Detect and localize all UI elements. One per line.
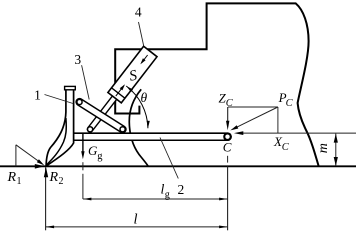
svg-text:2: 2	[59, 176, 64, 187]
lg dimension line	[83, 198, 228, 200]
pivot pin rod end	[88, 127, 93, 132]
svg-text:1: 1	[34, 87, 41, 102]
pivot pin link end	[120, 127, 125, 132]
blade moldboard 1	[46, 90, 74, 166]
svg-text:1: 1	[17, 176, 22, 187]
svg-text:C: C	[286, 98, 294, 109]
svg-text:g: g	[97, 151, 103, 162]
stroke S lower arrow	[116, 86, 124, 97]
svg-text:C: C	[226, 98, 234, 109]
svg-text:g: g	[165, 190, 170, 201]
svg-text:R: R	[7, 170, 17, 185]
dashed extension below C	[227, 156, 229, 163]
R2 arrow	[45, 167, 47, 230]
front idler wheel arc	[129, 89, 148, 166]
leader 3	[82, 65, 90, 99]
stroke S upper arrow	[142, 55, 148, 63]
Gg weight arrow	[82, 134, 84, 155]
leader 4	[139, 22, 144, 46]
force rectangle at C	[228, 106, 278, 108]
pivot pin blade top	[77, 99, 82, 104]
hydraulic cylinder 4 body	[108, 46, 157, 103]
svg-text:4: 4	[135, 4, 142, 19]
force PC arrow	[237, 107, 278, 127]
l dimension line	[46, 226, 228, 228]
cylinder piston rod	[90, 95, 117, 130]
leader 1	[45, 95, 74, 104]
svg-text:C: C	[223, 140, 232, 155]
force triangle vertical	[15, 145, 17, 167]
push beam 2	[70, 132, 228, 141]
level line through C	[238, 132, 356, 134]
tractor body outline	[115, 3, 319, 166]
svg-text:2: 2	[178, 182, 185, 197]
svg-text:m: m	[316, 143, 331, 153]
leader 2	[160, 138, 178, 179]
R1 arrowhead	[35, 164, 45, 169]
force XC arrowhead	[234, 131, 243, 135]
force ZC arrow	[227, 107, 229, 126]
cylinder head collar line	[112, 88, 125, 98]
m dimension	[335, 134, 337, 166]
angle arc theta	[126, 86, 148, 128]
dashed extension below Gg	[82, 162, 84, 170]
svg-text:R: R	[49, 170, 59, 185]
svg-text:C: C	[282, 142, 290, 153]
pin joint C	[223, 132, 232, 141]
blade top cap	[65, 86, 76, 89]
svg-text:l: l	[133, 212, 137, 228]
resultant arrow	[16, 145, 40, 162]
ground line	[0, 165, 356, 167]
svg-text:θ: θ	[140, 90, 147, 105]
svg-text:3: 3	[74, 52, 81, 67]
link 3 bar	[80, 102, 123, 129]
